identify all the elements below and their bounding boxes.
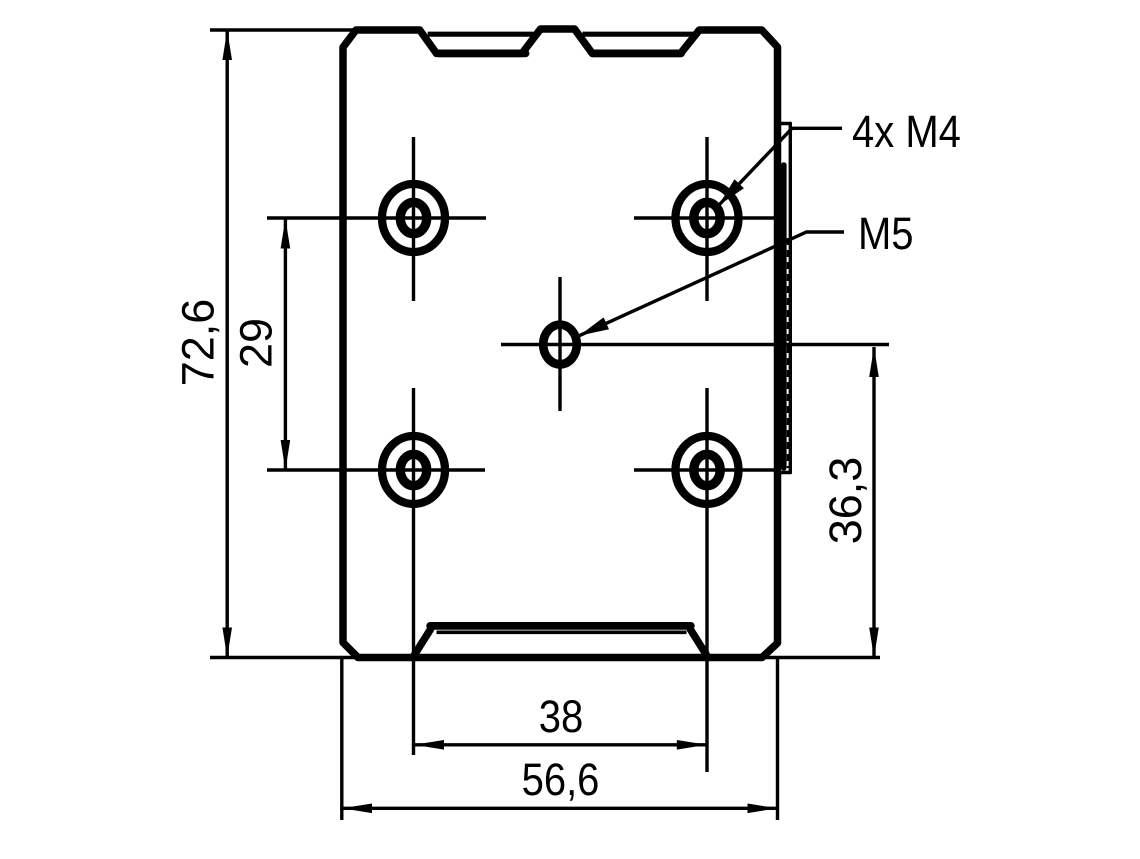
dimension 29 arrow down [281,440,291,470]
side tab hidden line [787,238,789,468]
dimension 36,3 arrow down [869,628,879,658]
hole TL outer circle [382,184,445,252]
hole BL inner circle [400,454,426,485]
top notch 1 inner edge [428,32,534,37]
hole M5 centerline vertical [558,277,561,411]
dimension 56,6 extension left [340,658,343,820]
dimension 38 arrow right [677,740,707,750]
svg-text:4x M4: 4x M4 [852,107,961,158]
dimension 72,6 arrow down [222,628,232,658]
svg-text:56,6: 56,6 [522,755,600,806]
bottom notch right slant [690,629,707,655]
hole BL outer circle [382,436,445,504]
side tab right edge [789,124,792,473]
svg-text:29: 29 [231,318,282,368]
hole BR centerline vertical / 38 extension right [705,388,708,772]
dimension 38 arrow left [414,740,444,750]
svg-text:M5: M5 [858,209,914,260]
bottom notch inner edge [437,630,687,634]
hole BR outer circle [676,436,739,504]
hole TR outer circle [676,184,739,252]
plate outline [343,29,778,658]
dimension 36,3 arrow up [869,347,879,377]
hole TR inner circle [694,202,720,233]
leader 4x M4 line [719,128,843,205]
dimension 72,6 arrow up [222,30,232,60]
dimension 72,6 line [225,30,228,658]
top notch 1 floor [438,50,525,58]
hole BL centerline vertical / 38 extension left [412,388,415,755]
hole TL centerline horizontal [267,216,486,219]
hole TL inner circle [400,202,426,233]
hole TL centerline vertical [412,137,415,301]
dimension 29 line [284,219,287,471]
svg-text:38: 38 [539,692,583,743]
top notch 2 floor [593,50,681,58]
hole BR centerline horizontal [634,468,780,471]
hole BR inner circle [694,454,720,485]
hole BL centerline horizontal [267,468,485,471]
hole TR centerline horizontal [634,216,780,219]
dimension 36,3 line [872,347,875,658]
extension line top left [210,28,356,31]
extension line bottom [210,656,880,659]
bottom notch floor [430,622,691,630]
side tab bottom edge [781,471,790,474]
dimension 56,6 line [342,807,778,810]
leader 4x M4 arrowhead [719,179,744,205]
svg-text:36,3: 36,3 [820,457,871,545]
side tab face edge [781,165,787,468]
hole M5 circle [543,325,577,365]
dimension 56,6 arrow left [342,804,372,814]
dimension 56,6 arrow right [748,804,778,814]
hole M5 centerline horizontal / 36,3 extension top [501,343,889,346]
svg-text:72,6: 72,6 [173,299,224,387]
top notch 2 inner edge [583,32,694,37]
dimension 29 arrow up [281,219,291,249]
leader M5 line [579,232,844,336]
leader M5 arrowhead [579,317,609,335]
dimension 38 line [414,743,707,746]
bottom notch left slant [414,629,431,655]
hole TR centerline vertical [705,137,708,301]
dimension 56,6 extension right [776,658,779,820]
side tab top edge [781,122,790,125]
